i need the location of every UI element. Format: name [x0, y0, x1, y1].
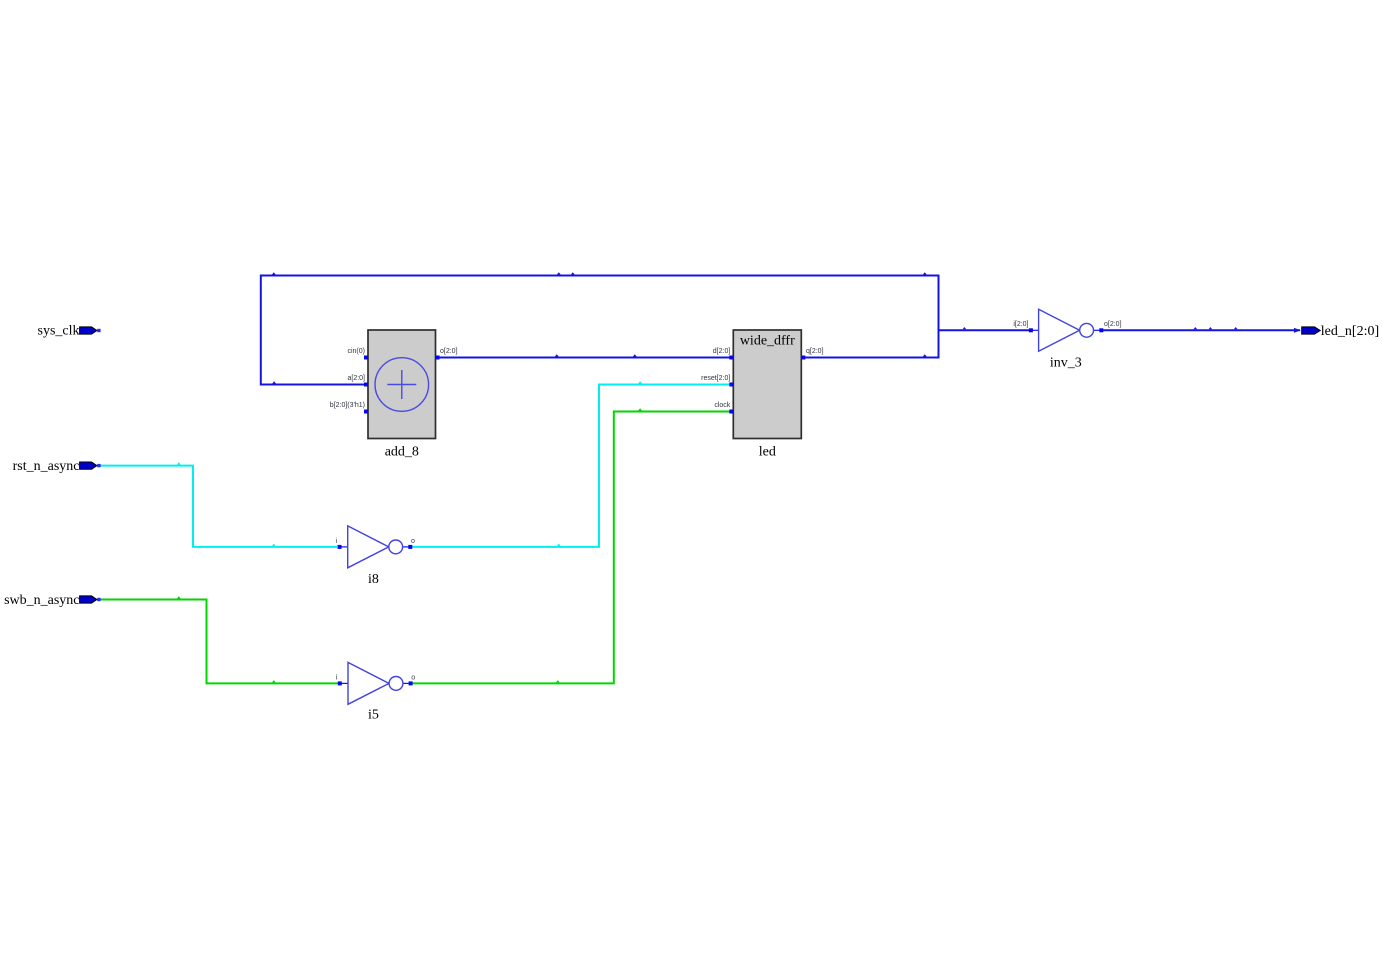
wire: rst_n_async port to corner (cyan net): [100, 466, 337, 547]
adder block add_8 body: [368, 330, 436, 439]
wire tick marks on blue net: [272, 272, 1238, 383]
wire: i5 output to wide_dffr clock (green net): [412, 412, 731, 684]
svg-text:led: led: [759, 445, 776, 460]
svg-text:d[2:0]: d[2:0]: [713, 348, 731, 355]
wire: wide_dffr q[2:0] to corner x938.5 (blue net): [804, 357, 939, 359]
adder add_8 plus symbol: [387, 370, 416, 399]
svg-text:a[2:0]: a[2:0]: [347, 375, 365, 382]
svg-text:o: o: [411, 538, 415, 545]
i8 input pin dot: [338, 545, 342, 549]
output port led_n[2:0] arrow into port: [1294, 328, 1301, 333]
inverter i8 bubble: [389, 540, 403, 554]
svg-text:o[2:0]: o[2:0]: [1104, 321, 1122, 328]
inverter i5 triangle: [348, 662, 389, 704]
add_8 pin b[2:0](3'h1): [364, 410, 368, 414]
svg-text:o: o: [411, 675, 415, 682]
wire: swb_n_async port to i5 input (green net): [100, 600, 338, 684]
inverter inv_3 input stub: [1030, 329, 1039, 331]
i5 output pin dot: [409, 681, 413, 685]
i8 output pin dot: [408, 545, 412, 549]
wide_dffr pin d[2:0]: [729, 356, 733, 360]
wide_dffr pin reset[2:0]: [729, 383, 733, 387]
add_8 pin a[2:0]: [364, 383, 368, 387]
wire: inv_3 output to led_n port (blue net): [1102, 329, 1300, 331]
inverter i5 output stub: [402, 682, 411, 684]
wire: i8 output to wide_dffr reset[2:0] (cyan net): [412, 385, 731, 547]
input port sys_clk symbol: [80, 327, 97, 334]
svg-text:wide_dffr: wide_dffr: [740, 334, 795, 349]
wire tick marks on green net: [177, 408, 642, 682]
svg-text:reset[2:0]: reset[2:0]: [701, 375, 730, 382]
add_8 pin cin(0): [364, 356, 368, 360]
inverter i8 input stub: [339, 546, 348, 548]
svg-text:clock: clock: [714, 402, 730, 409]
wire: feedback loop q -> top -> add_8 a[2:0] (blue net): [261, 276, 939, 385]
svg-text:cin(0): cin(0): [347, 348, 365, 355]
svg-text:rst_n_async: rst_n_async: [13, 459, 80, 474]
svg-text:swb_n_async: swb_n_async: [4, 593, 79, 608]
wide_dffr pin clock: [729, 410, 733, 414]
inverter inv_3 triangle: [1039, 309, 1080, 351]
input port swb_n_async symbol: [80, 596, 97, 603]
inverter i8 output stub: [402, 546, 411, 548]
inv_3 output pin dot: [1099, 328, 1103, 332]
register block wide_dffr body: [733, 330, 801, 439]
svg-text:led_n[2:0]: led_n[2:0]: [1321, 324, 1379, 339]
svg-text:b[2:0](3'h1): b[2:0](3'h1): [330, 402, 365, 409]
wire tick marks on cyan net: [177, 381, 642, 546]
input port rst_n_async symbol: [80, 462, 97, 469]
svg-text:i5: i5: [368, 708, 379, 723]
adder add_8 circle symbol: [375, 358, 429, 412]
wide_dffr pin q[2:0]: [801, 356, 805, 360]
inverter i5 input stub: [340, 682, 348, 684]
output port led_n[2:0] symbol: [1302, 327, 1321, 334]
svg-text:q[2:0]: q[2:0]: [806, 348, 824, 355]
svg-text:inv_3: inv_3: [1050, 356, 1082, 371]
i5 input pin dot: [338, 681, 342, 685]
inv_3 input pin dot: [1029, 328, 1033, 332]
wire: branch x938.5 to inv_3 input (blue net): [939, 329, 1030, 331]
inverter i8 triangle: [348, 526, 389, 568]
svg-text:sys_clk: sys_clk: [38, 324, 80, 339]
sys_clk pin square: [97, 329, 100, 332]
swb_n_async pin square: [97, 598, 100, 601]
inverter inv_3 output stub: [1093, 329, 1102, 331]
rst_n_async pin square: [97, 464, 100, 467]
add_8 pin o[2:0]: [436, 356, 440, 360]
inverter inv_3 bubble: [1080, 323, 1094, 337]
svg-text:add_8: add_8: [385, 445, 419, 460]
svg-text:o[2:0]: o[2:0]: [440, 348, 458, 355]
svg-text:i[2:0]: i[2:0]: [1013, 321, 1028, 328]
wire: add_8 o[2:0] to wide_dffr d[2:0] (blue net): [438, 357, 731, 359]
svg-text:i8: i8: [368, 572, 379, 587]
inverter i5 bubble: [389, 677, 403, 691]
